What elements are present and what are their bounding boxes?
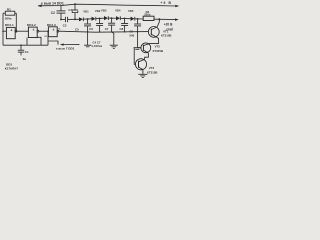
wire: R1 left lead down to bottom net: [2, 13, 4, 45]
node S2: [99, 18, 101, 20]
svg-text:DD1.1: DD1.1: [5, 23, 14, 27]
transistor VT1: [148, 27, 159, 38]
wire: VT2 emitter to VT3 collector: [145, 53, 149, 59]
ground (C7): [110, 44, 118, 46]
ground (VT3 emitter): [138, 73, 147, 75]
capacitor C6 (shunt): [99, 18, 101, 23]
wire: DD1.2 out to DD1.3 in: [39, 30, 49, 32]
svg-text:220к: 220к: [144, 13, 151, 17]
node: VT1 collector junction: [158, 18, 160, 20]
node: supply rail to pin 14 (top bus): [38, 4, 177, 6]
svg-text:+9 В: +9 В: [161, 1, 172, 5]
svg-text:0,047мк: 0,047мк: [92, 44, 103, 48]
arrow +9V (right arrowhead): [175, 5, 179, 8]
capacitor C5 (shunt): [87, 19, 89, 24]
svg-text:КТ315В: КТ315В: [153, 49, 164, 53]
svg-text:C6: C6: [89, 27, 93, 31]
svg-text:&: &: [33, 29, 35, 32]
resistor R1: [5, 11, 15, 15]
svg-text:VT1: VT1: [163, 29, 169, 33]
node S4: [124, 18, 126, 20]
transistor VT2: [141, 43, 151, 53]
node: junction R1 left / input: [2, 30, 4, 32]
output bubble DD1.1: [15, 30, 17, 32]
svg-text:C1: C1: [25, 50, 29, 54]
arrow to pin 14 DD1 (left arrowhead): [38, 5, 42, 8]
wire: ladder rail segment 1: [61, 19, 65, 21]
wire: rail VD1 to VD2: [83, 18, 91, 20]
svg-text:К176ЛА7: К176ЛА7: [5, 67, 18, 71]
wire: VT3 emitter to ground: [142, 70, 144, 74]
svg-text:C2: C2: [51, 11, 55, 15]
svg-text:VD5: VD5: [128, 9, 134, 13]
wire: input DD1.1: [3, 30, 6, 32]
ground (C9 / VT2 base node): [134, 47, 141, 49]
svg-text:к выв 7 DD1: к выв 7 DD1: [56, 47, 75, 51]
svg-text:КТ315В: КТ315В: [161, 34, 172, 38]
svg-text:&: &: [11, 29, 13, 32]
svg-text:VD4: VD4: [115, 9, 121, 13]
arrow +20V output: [175, 18, 179, 21]
svg-text:&: &: [53, 28, 55, 31]
arrow to pin 7 DD1: [63, 44, 80, 46]
svg-text:500к: 500к: [5, 16, 12, 20]
diode VD4: [116, 16, 120, 20]
wire: DD1.1 out to DD1.2 in: [17, 30, 29, 32]
svg-text:C4: C4: [68, 8, 72, 12]
node S1: [87, 18, 89, 20]
svg-text:КТ315В: КТ315В: [147, 71, 158, 75]
node: junction C1 tap: [20, 44, 22, 46]
svg-text:C7: C7: [105, 27, 109, 31]
diode VD2: [92, 17, 96, 21]
wire: R1 right lead down to DD1.1 output: [15, 13, 17, 31]
node: ladder rail start: [60, 19, 62, 21]
capacitor C9 (shunt to ground): [137, 19, 139, 24]
wire: pump bus from DD1.3 output to VT1 base: [59, 31, 148, 32]
transistor VT3: [135, 59, 146, 70]
capacitor C2: [60, 6, 62, 11]
wire: rail to VD1: [68, 18, 79, 20]
wire: rail VD2 to VD3: [96, 17, 104, 20]
wire: rail R4 to output: [154, 18, 176, 20]
wire: rail VD4 to VD5: [120, 17, 130, 19]
svg-text:3н: 3н: [23, 57, 27, 61]
output bubble DD1.3: [57, 30, 59, 32]
svg-text:VT2: VT2: [155, 45, 161, 49]
wire: base rail down to VT3: [134, 48, 135, 65]
svg-text:DD1.3: DD1.3: [47, 23, 56, 27]
ground (C5): [84, 44, 91, 46]
capacitor C3 (series): [64, 17, 66, 22]
svg-text:C5: C5: [75, 27, 79, 31]
diode VD3: [104, 16, 108, 20]
node S5: [137, 18, 139, 20]
wire: rail VD3 to VD4: [108, 17, 116, 19]
wire: collector VT1: [157, 19, 159, 27]
svg-text:500: 500: [129, 33, 134, 37]
wire: bottom net left (y43): [3, 44, 48, 46]
svg-text:DD1.2: DD1.2: [27, 23, 36, 27]
resistor R4: [143, 16, 154, 20]
wire: VT2 base lead: [138, 47, 141, 49]
capacitor C8 (shunt): [124, 18, 126, 23]
svg-text:к выв 14 DD1: к выв 14 DD1: [41, 1, 64, 5]
gate DD1.2: [28, 27, 37, 37]
capacitor C1: [20, 45, 22, 50]
diode VD5: [131, 17, 135, 21]
gate DD1.1: [6, 27, 15, 38]
svg-text:VD3: VD3: [101, 8, 107, 12]
wire: rail VD5 to R4: [135, 18, 143, 20]
svg-text:VD2: VD2: [95, 9, 101, 13]
svg-text:+20 В: +20 В: [164, 23, 173, 27]
capacitor C4 (electrolytic from supply rail): [74, 3, 76, 5]
wire: VT1 emitter to VT2 collector: [149, 38, 159, 45]
svg-text:VD1: VD1: [83, 10, 89, 14]
svg-text:R1: R1: [7, 7, 11, 11]
diode VD1: [79, 17, 83, 21]
wire: DD1.2 pin stub to step: [37, 37, 41, 45]
output bubble DD1.2: [37, 30, 39, 32]
wire: DD1.3 input node down: [47, 31, 49, 45]
wire: DD1.2 bottom pin to bottom net: [26, 38, 28, 46]
svg-text:C8: C8: [120, 27, 124, 31]
node: junction R1 right / output: [16, 30, 18, 32]
node S3: [111, 17, 113, 19]
gate DD1.3: [48, 27, 57, 37]
capacitor C7 (shunt to ground): [111, 18, 113, 23]
svg-text:C3: C3: [63, 23, 67, 27]
svg-text:VT3: VT3: [149, 66, 155, 70]
wire: step to pin7 annotation: [48, 41, 58, 45]
